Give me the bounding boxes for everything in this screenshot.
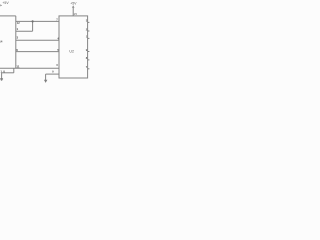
svg-text:11: 11 [16,65,20,69]
svg-text:+5V: +5V [70,1,77,5]
svg-text:15: 15 [74,12,78,16]
svg-text:14: 14 [0,40,3,44]
svg-text:+5V: +5V [2,1,9,5]
svg-text:U2: U2 [69,49,74,53]
